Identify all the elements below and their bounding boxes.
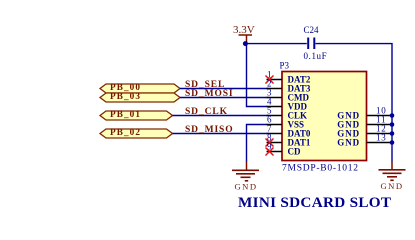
svg-text:P3: P3 bbox=[280, 61, 290, 71]
svg-text:GND: GND bbox=[234, 181, 257, 191]
junction node pin 11 / ground rail bbox=[390, 122, 395, 127]
no-ERC marker on pin 9 bbox=[266, 148, 274, 156]
ground symbol right (GND) bbox=[379, 161, 406, 191]
P3 pin 4 stub and number bbox=[267, 96, 283, 106]
junction node pin 12 / ground rail bbox=[390, 131, 395, 136]
svg-text:7MSDP-B0-1012: 7MSDP-B0-1012 bbox=[282, 164, 359, 174]
svg-text:C24: C24 bbox=[304, 25, 320, 35]
port PB_02 bbox=[100, 127, 173, 138]
junction node at 3.3V rail bbox=[243, 41, 248, 46]
no-ERC marker on pin 1 bbox=[266, 76, 274, 84]
svg-text:GND: GND bbox=[337, 137, 360, 147]
ground symbol left (GND) bbox=[232, 161, 259, 191]
wire: VSS pin 6 to left ground bbox=[247, 125, 268, 162]
wire: PB_03 to pin 3 (net SD_MOSI) bbox=[180, 97, 269, 99]
IC P3 body (SD card slot) bbox=[282, 72, 367, 161]
svg-text:PB_03: PB_03 bbox=[110, 91, 141, 101]
capacitor C24 bbox=[308, 38, 314, 50]
P3 pin 10 stub and number bbox=[367, 105, 393, 115]
port PB_00 bbox=[100, 82, 180, 93]
no-ERC marker on pin 8 bbox=[266, 139, 274, 147]
wire: 3.3V rail vertical down to VDD pin 4 bbox=[247, 42, 268, 107]
svg-text:CD: CD bbox=[288, 146, 301, 156]
svg-text:0.1uF: 0.1uF bbox=[304, 51, 328, 61]
wire: PB_02 to pin 7 (net SD_MISO) bbox=[173, 133, 269, 135]
svg-text:13: 13 bbox=[376, 132, 387, 142]
svg-text:SD_MISO: SD_MISO bbox=[185, 125, 234, 135]
junction node pin 10 / ground rail bbox=[390, 113, 395, 118]
P3 pin 13 stub and number bbox=[367, 132, 393, 142]
P3 pin 8 stub and number bbox=[267, 132, 283, 142]
svg-text:PB_01: PB_01 bbox=[110, 109, 141, 119]
P3 pin 7 stub and number bbox=[267, 123, 283, 133]
P3 pin 5 stub and number bbox=[267, 105, 283, 115]
svg-text:SD_MOSI: SD_MOSI bbox=[185, 89, 234, 99]
P3 pin 1 stub and number bbox=[267, 69, 283, 79]
svg-text:MINI SDCARD SLOT: MINI SDCARD SLOT bbox=[238, 194, 391, 211]
power symbol 3.3V bbox=[233, 24, 255, 42]
P3 pin 6 stub and number bbox=[267, 114, 283, 124]
wire: junction to capacitor C24 left plate bbox=[245, 43, 306, 45]
P3 pin 2 stub and number bbox=[267, 78, 283, 88]
P3 pin 3 stub and number bbox=[267, 87, 283, 97]
P3 pin 12 stub and number bbox=[367, 123, 393, 133]
port PB_01 bbox=[100, 109, 173, 120]
port PB_03 bbox=[100, 91, 180, 102]
P3 pin 9 stub and number bbox=[267, 141, 283, 151]
P3 pin 11 stub and number bbox=[367, 114, 393, 124]
wire: capacitor right plate to right ground rail bbox=[316, 44, 393, 162]
junction node pin 13 / ground rail bbox=[390, 140, 395, 145]
svg-text:PB_02: PB_02 bbox=[110, 127, 141, 137]
svg-text:SD_CLK: SD_CLK bbox=[185, 107, 228, 117]
wire: PB_00 to pin 2 (net SD_SEL) bbox=[180, 88, 269, 90]
svg-text:GND: GND bbox=[380, 181, 403, 191]
wire: PB_01 to pin 5 (net SD_CLK) bbox=[173, 115, 269, 117]
